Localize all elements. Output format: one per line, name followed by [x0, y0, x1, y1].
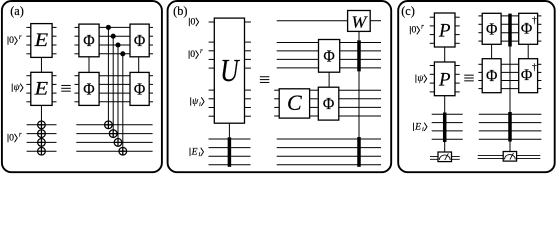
wire bar1 to bar2 — [358, 71, 360, 137]
input stubs U — [209, 22, 215, 116]
ket |E_i> (c) — [414, 121, 428, 133]
|0> wire right of W — [370, 20, 381, 22]
CNOT target T2 (a left) — [38, 130, 46, 138]
ket |0>^r bottom register (a) — [8, 131, 22, 143]
svg-text:E: E — [34, 30, 49, 51]
input stubs Phi1 — [75, 27, 79, 53]
svg-text:i: i — [422, 126, 424, 133]
gate Phi7 — [482, 13, 501, 44]
wire W to bar1 — [358, 31, 360, 40]
svg-text:P: P — [438, 20, 451, 41]
svg-text:r: r — [19, 34, 22, 41]
panel (b) frame — [168, 1, 392, 172]
svg-text:ψ: ψ — [14, 82, 21, 93]
|0> wire left of W — [277, 20, 348, 22]
equivalence symbol (c) — [464, 75, 474, 81]
output stubs Phi10dag — [538, 64, 542, 88]
gate P2 — [434, 62, 455, 96]
gate Phi5 — [319, 40, 340, 73]
interaction bar (b left) — [228, 137, 232, 167]
connector Phi8-Phi10 — [527, 44, 529, 58]
svg-text:(c): (c) — [401, 4, 415, 18]
swap-test bar (c) — [508, 14, 512, 47]
gate Phi4 — [130, 72, 149, 105]
wire P2 to bar — [444, 96, 446, 113]
svg-text:E: E — [34, 78, 49, 99]
control vertical wires to targets — [108, 27, 122, 155]
svg-text:W: W — [351, 13, 368, 32]
|psi> wires right of Phi6 — [339, 90, 381, 116]
svg-text:C: C — [287, 90, 302, 115]
CNOT target 4 (a right) — [119, 147, 127, 155]
CNOT target 1 (a right) — [105, 121, 113, 129]
connector Phi2-Phi4 — [138, 57, 140, 73]
bar on |E_i> (b) — [357, 137, 361, 167]
bottom |0>^r wires (a right) — [76, 125, 152, 151]
output stubs E2 — [52, 76, 56, 102]
|0>^r wires right of Phi5 — [340, 43, 381, 68]
svg-text:Φ: Φ — [486, 66, 497, 85]
svg-text:†: † — [532, 16, 537, 26]
wire E2 to CNOT targets — [40, 105, 42, 154]
gate E1 — [31, 24, 52, 58]
connector Phi1-Phi3 — [88, 57, 90, 73]
output stubs P2 — [455, 66, 460, 92]
svg-text:(b): (b) — [173, 4, 187, 18]
svg-text:Φ: Φ — [134, 31, 145, 50]
input stubs Phi3 — [75, 76, 79, 102]
wires C to Phi6 — [310, 90, 319, 116]
input stubs E2 — [26, 76, 30, 102]
|E_i> wires (b left) — [209, 139, 251, 165]
svg-text:Φ: Φ — [486, 19, 497, 38]
svg-text:i: i — [198, 151, 200, 158]
CNOT target T1 (a left) — [38, 121, 46, 129]
ket |0>^r (b) — [189, 48, 203, 60]
wire U to environment bar — [228, 123, 230, 137]
ket |0>^r (c) — [410, 24, 424, 36]
row2 wires Phi9-Phi10dag — [501, 64, 519, 88]
svg-text:Φ: Φ — [83, 31, 94, 50]
svg-text:r: r — [19, 131, 22, 138]
svg-text:U: U — [220, 53, 240, 88]
gate W — [348, 11, 371, 32]
output stubs Phi2 — [149, 27, 153, 53]
gate Phi1 — [79, 24, 99, 57]
gate C — [279, 89, 309, 118]
svg-text:E: E — [191, 146, 198, 157]
input stubs P2 — [430, 66, 435, 92]
output stubs U — [245, 22, 251, 116]
svg-text:Φ: Φ — [323, 94, 334, 113]
svg-text:ψ: ψ — [192, 96, 199, 107]
output stubs Phi4 — [149, 76, 153, 102]
gate Phi9 — [482, 59, 501, 93]
measurement meter (c right) — [503, 152, 516, 162]
CNOT target T3 (a left) — [38, 139, 46, 147]
CNOT target T4 (a left) — [38, 147, 46, 155]
svg-text:Φ: Φ — [83, 79, 94, 98]
classical double wire (c right) — [478, 156, 541, 159]
equivalence symbol (b) — [260, 77, 270, 83]
equivalence symbol (a) — [61, 85, 71, 91]
gate U — [214, 18, 244, 123]
measurement meter (c left) — [438, 152, 452, 162]
output stubs Phi8dag — [538, 16, 542, 41]
control dot 3 (a) — [115, 42, 120, 47]
gate P1 — [434, 13, 455, 47]
input stubs C — [274, 90, 279, 116]
svg-text:r: r — [200, 48, 203, 55]
svg-text:Φ: Φ — [521, 67, 533, 84]
input stubs P1 — [430, 17, 435, 43]
connector Phi7-Phi9 — [491, 44, 493, 58]
svg-text:Φ: Φ — [521, 20, 533, 37]
ket |psi> (a) — [12, 82, 23, 93]
gate Phi2 — [130, 24, 149, 57]
central wire down (c) — [509, 47, 511, 113]
|E_i> wires (c left) — [432, 114, 463, 139]
|0>^r wires left of Phi5 — [277, 43, 319, 68]
bar on |0>^r (b) — [357, 40, 361, 71]
panel (c) frame — [398, 1, 555, 172]
panel (a) frame — [2, 1, 162, 172]
svg-text:0: 0 — [411, 25, 416, 36]
control dot 2 (a) — [111, 34, 116, 39]
connector Phi5-Phi6 — [328, 72, 330, 87]
svg-text:0: 0 — [190, 49, 195, 60]
svg-text:Φ: Φ — [323, 46, 334, 65]
svg-text:(a): (a) — [10, 4, 24, 18]
control dot 4 (a) — [120, 51, 125, 56]
wire bar to meter (c left) — [444, 142, 446, 152]
|E_i> wires (b right) — [277, 139, 381, 165]
svg-text:r: r — [421, 24, 424, 31]
svg-text:0: 0 — [9, 35, 14, 46]
svg-text:†: † — [532, 63, 537, 73]
ket |psi_i> (b) — [191, 96, 204, 108]
wire E1-E2 connector — [40, 57, 42, 72]
input stubs Phi7 — [478, 16, 482, 41]
svg-text:E: E — [414, 121, 421, 132]
gate Phi3 — [79, 72, 99, 105]
CNOT target 2 (a right) — [109, 130, 117, 138]
svg-text:i: i — [199, 101, 201, 108]
gate Phi10dag (Phi dagger) — [519, 59, 538, 93]
output stubs P1 — [455, 17, 460, 43]
output stubs E1 — [52, 27, 56, 53]
bottom |0>^r wires (a left) — [27, 125, 57, 151]
interaction bar (c right) — [508, 112, 512, 142]
gate E2 — [31, 72, 52, 105]
svg-text:P: P — [438, 69, 451, 90]
ket |E_i> (b) — [190, 146, 204, 158]
CNOT target 3 (a right) — [114, 139, 122, 147]
control dot 1 (a) — [106, 25, 111, 30]
svg-text:Φ: Φ — [134, 79, 145, 98]
gate Phi6 — [318, 87, 339, 120]
classical double wire (c left) — [430, 156, 460, 159]
interaction bar (c left) — [443, 113, 447, 143]
row1 wires Phi7-Phi8dag — [501, 16, 519, 41]
row2 wires between Phi3 Phi4 — [99, 76, 130, 102]
row1 wires between Phi1 Phi2 — [99, 27, 130, 53]
gate Phi8dag (Phi dagger) — [519, 13, 538, 44]
svg-text:ψ: ψ — [417, 73, 424, 84]
input stubs Phi9 — [478, 64, 482, 88]
|E_i> wires (c right) — [479, 114, 542, 139]
ket |psi> (c) — [416, 73, 427, 84]
svg-text:0: 0 — [190, 17, 195, 28]
connector P1-P2 — [444, 47, 446, 62]
svg-text:0: 0 — [9, 133, 14, 144]
input stubs E1 — [26, 27, 30, 53]
ket |0>^r top register (a) — [8, 34, 22, 46]
ket |0> (b) — [189, 17, 198, 28]
wire bar to meter (c right) — [509, 142, 511, 153]
